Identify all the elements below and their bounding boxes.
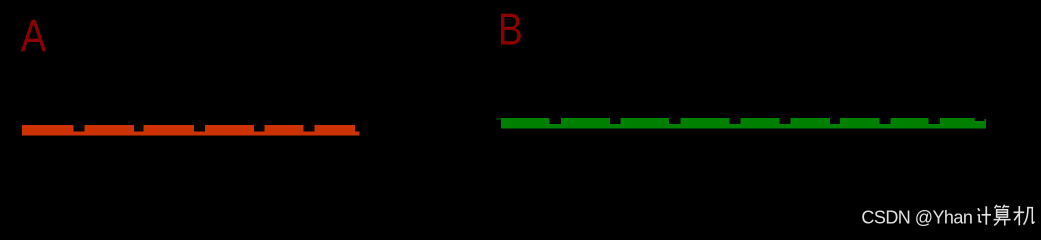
strand B nick 6 (830, 118, 840, 124)
svg-text:CSDN @Yhan: CSDN @Yhan (861, 208, 973, 228)
strand B nick 3 (669, 118, 680, 124)
strand A bar (22, 125, 359, 136)
strand B nick 7 (879, 118, 890, 124)
strand A nick 3 (194, 125, 205, 132)
svg-text:A: A (21, 10, 47, 61)
svg-text:B: B (498, 4, 523, 54)
strand B left primer dash (496, 118, 501, 119)
strand B bar (496, 118, 986, 129)
strand B nick 2 (610, 118, 620, 124)
watermark glyph 算 (994, 205, 1011, 226)
strand A nick 2 (134, 125, 144, 132)
watermark glyph 计 (978, 206, 991, 224)
strand B nick 4 (730, 118, 741, 124)
strand A main bar body (22, 125, 355, 136)
strand A nick 1 (74, 125, 85, 132)
strand B right shelf (975, 121, 986, 128)
strand B nick 1 (549, 118, 560, 124)
strand B nick 5 (779, 118, 790, 124)
strand A right shelf (355, 131, 360, 135)
strand B nick 8 (929, 118, 940, 124)
watermark glyph 机 (1014, 206, 1035, 225)
strand A nick 4 (254, 125, 265, 132)
strand B end tick (985, 119, 986, 122)
strand A nick 5 (304, 125, 315, 132)
strand B main bar body (501, 118, 974, 128)
